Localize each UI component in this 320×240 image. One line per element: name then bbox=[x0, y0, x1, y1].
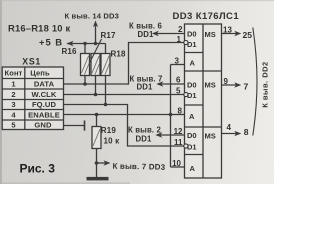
svg-text:GND: GND bbox=[34, 120, 52, 129]
svg-text:FQ.UD: FQ.UD bbox=[32, 100, 57, 109]
svg-text:К выв. 14 DD3: К выв. 14 DD3 bbox=[65, 11, 119, 20]
svg-text:13: 13 bbox=[223, 26, 232, 35]
svg-text:D0: D0 bbox=[187, 30, 197, 39]
svg-text:MS: MS bbox=[205, 30, 216, 39]
svg-text:25: 25 bbox=[243, 30, 253, 40]
svg-text:5: 5 bbox=[11, 120, 16, 129]
svg-text:A: A bbox=[190, 164, 196, 173]
svg-text:4: 4 bbox=[11, 110, 16, 119]
svg-text:К выв. DD2: К выв. DD2 bbox=[260, 61, 269, 107]
svg-text:5: 5 bbox=[176, 87, 181, 96]
svg-text:R16–R18 10 к: R16–R18 10 к bbox=[8, 23, 70, 34]
svg-text:XS1: XS1 bbox=[22, 56, 41, 66]
svg-text:1: 1 bbox=[11, 79, 16, 88]
svg-text:DATA: DATA bbox=[34, 79, 55, 88]
svg-text:R17: R17 bbox=[101, 31, 117, 40]
svg-text:ENABLE: ENABLE bbox=[28, 110, 60, 119]
svg-text:2: 2 bbox=[11, 90, 15, 99]
svg-text:D1: D1 bbox=[187, 91, 197, 100]
svg-text:Конт: Конт bbox=[5, 69, 23, 78]
svg-text:3: 3 bbox=[11, 100, 15, 109]
svg-text:W.CLK: W.CLK bbox=[32, 90, 57, 99]
svg-text:12: 12 bbox=[174, 127, 183, 136]
svg-text:8: 8 bbox=[178, 107, 183, 116]
svg-text:D1: D1 bbox=[187, 40, 197, 49]
svg-text:DD1: DD1 bbox=[136, 135, 153, 144]
svg-text:К выв. 7 DD3: К выв. 7 DD3 bbox=[112, 162, 165, 172]
svg-text:R18: R18 bbox=[111, 49, 127, 58]
svg-text:8: 8 bbox=[244, 127, 249, 137]
svg-text:DD1: DD1 bbox=[138, 30, 155, 39]
svg-text:DD3 К176ЛС1: DD3 К176ЛС1 bbox=[173, 11, 240, 22]
svg-text:2: 2 bbox=[178, 25, 183, 34]
svg-text:10 к: 10 к bbox=[104, 137, 121, 146]
svg-text:7: 7 bbox=[244, 81, 249, 91]
svg-text:R19: R19 bbox=[101, 126, 117, 135]
svg-text:D0: D0 bbox=[187, 81, 197, 90]
svg-text:MS: MS bbox=[205, 132, 216, 141]
svg-text:1: 1 bbox=[177, 35, 182, 44]
svg-text:A: A bbox=[190, 59, 196, 68]
svg-text:R16: R16 bbox=[62, 47, 78, 56]
svg-text:9: 9 bbox=[224, 77, 229, 86]
svg-text:6: 6 bbox=[176, 76, 181, 85]
svg-text:A: A bbox=[189, 112, 195, 121]
svg-text:D0: D0 bbox=[187, 131, 197, 140]
svg-text:10: 10 bbox=[172, 159, 181, 168]
svg-text:4: 4 bbox=[227, 123, 232, 132]
svg-text:+5 В: +5 В bbox=[39, 37, 63, 48]
svg-text:MS: MS bbox=[205, 81, 216, 90]
svg-text:D1: D1 bbox=[187, 143, 197, 152]
svg-text:3: 3 bbox=[175, 57, 180, 66]
svg-text:11: 11 bbox=[174, 138, 183, 147]
svg-text:DD1: DD1 bbox=[137, 83, 154, 92]
svg-text:Рис. 3: Рис. 3 bbox=[20, 162, 56, 176]
svg-text:К выв. 2: К выв. 2 bbox=[128, 126, 162, 135]
svg-text:Цепь: Цепь bbox=[30, 69, 50, 78]
